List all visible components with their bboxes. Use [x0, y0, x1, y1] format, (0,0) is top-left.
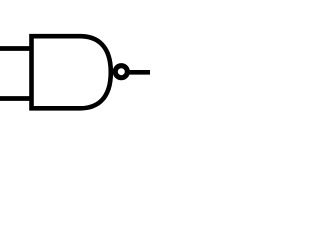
inversion bubble: [115, 66, 127, 78]
output wire Y: [129, 70, 150, 75]
input wire A: [0, 46, 32, 51]
input wire B: [0, 96, 32, 101]
NAND gate U1 body: [32, 36, 111, 108]
